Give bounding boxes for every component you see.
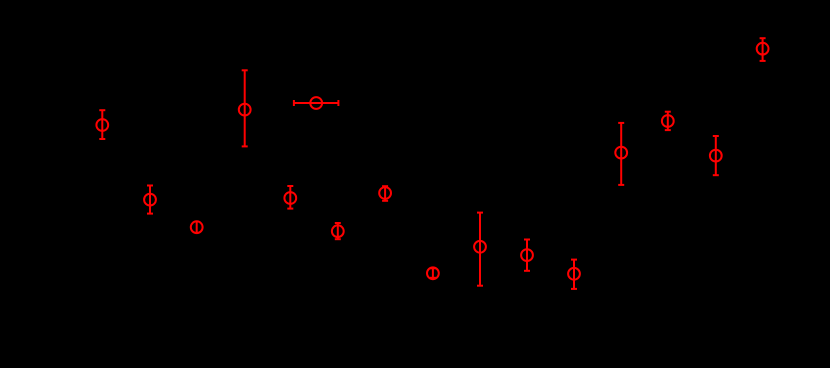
data point 10 error bar [477, 213, 483, 286]
data point 11 error bar [524, 240, 530, 271]
data point 14 error bar [665, 112, 671, 130]
data point 2 error bar [147, 186, 153, 214]
data point 4 error bar [242, 70, 248, 146]
data point 7 error bar [335, 223, 341, 239]
data point 11 marker [521, 249, 533, 261]
data point 9 error bar [430, 268, 436, 278]
data point 5 marker [284, 192, 296, 204]
data point 3 error bar [196, 221, 198, 234]
data point 10 marker [474, 241, 486, 253]
data point 15 error bar [713, 136, 719, 175]
data point 6 horizontal error bar [294, 100, 339, 106]
data point 14 marker [662, 115, 674, 127]
data point 8 marker [379, 187, 391, 199]
data point 1 error bar [99, 110, 105, 139]
data point 4 marker [239, 104, 251, 116]
data point 1 marker [96, 119, 108, 131]
data point 2 marker [144, 194, 156, 206]
data point 7 marker [332, 225, 344, 237]
data point 12 marker [568, 268, 580, 280]
data point 16 error bar [760, 38, 766, 61]
data point 13 marker [615, 147, 627, 159]
data point 16 marker [757, 43, 769, 55]
data point 15 marker [710, 150, 722, 162]
data point 9 marker [427, 267, 439, 279]
data point 6 marker [310, 97, 322, 109]
data point 3 marker [191, 221, 203, 233]
data point 5 error bar [287, 186, 293, 209]
data point 13 error bar [618, 123, 624, 185]
data point 8 error bar [382, 186, 388, 201]
data point 12 error bar [571, 260, 577, 289]
